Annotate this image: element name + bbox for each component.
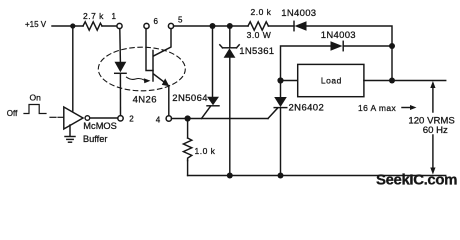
diode D3 1N4003 (points right) xyxy=(331,41,343,50)
pin 6 label xyxy=(154,17,159,26)
wire to load xyxy=(281,80,298,82)
wire pin5 to top rail xyxy=(174,25,248,27)
wire zener top xyxy=(229,26,231,47)
wire emitter to pin 4 xyxy=(168,86,170,116)
wire R3 to bottom rail xyxy=(187,161,189,176)
wire pin1 to LED anode xyxy=(119,29,122,62)
wire +15V down to buffer xyxy=(72,26,74,111)
svg-text:On: On xyxy=(30,92,42,102)
svg-text:60 Hz: 60 Hz xyxy=(423,125,448,136)
svg-text:2N5064: 2N5064 xyxy=(172,93,208,104)
waveform On label xyxy=(30,92,42,102)
svg-text:2: 2 xyxy=(129,115,134,124)
wire buffer to pin 2 xyxy=(90,117,118,119)
wire R3 top xyxy=(187,119,189,139)
light coupling arrow xyxy=(127,77,145,80)
node junction dot pin4 / R3 xyxy=(185,115,191,121)
wire pin4 node to Q2 gate xyxy=(172,118,269,120)
svg-text:5: 5 xyxy=(178,16,183,25)
value label 1.0 k xyxy=(195,146,216,156)
svg-text:4: 4 xyxy=(156,115,161,124)
wire R2 to diode D2 xyxy=(268,25,294,27)
zener diode D4 1N5361 xyxy=(223,47,237,49)
node junction dot load left xyxy=(277,77,283,83)
svg-text:3.0 W: 3.0 W xyxy=(247,30,272,40)
pin 1 terminal xyxy=(117,23,122,28)
SCR Q2 2N6402 anode wire xyxy=(280,81,282,98)
resistor R3 1.0k xyxy=(183,138,191,161)
label 4N26 xyxy=(133,94,157,105)
label Buffer xyxy=(83,134,108,144)
svg-text:16 A max: 16 A max xyxy=(358,103,397,113)
wire junction down xyxy=(391,46,393,81)
phototransistor collector xyxy=(154,29,172,56)
wire SCR1 anode xyxy=(212,26,214,97)
bottom rail wire xyxy=(188,175,446,177)
optocoupler U1 4N26 dashed ellipse xyxy=(98,47,185,91)
pin 5 terminal xyxy=(168,23,173,28)
svg-text:1N5361: 1N5361 xyxy=(239,46,274,57)
node junction dot diodes right xyxy=(389,43,395,49)
pin 2 terminal xyxy=(118,116,123,121)
svg-text:6: 6 xyxy=(154,17,159,26)
watermark SeekIC.com xyxy=(376,172,457,189)
pin 1 label xyxy=(112,12,117,21)
label 1N5361 xyxy=(239,46,274,57)
pin 4 terminal xyxy=(166,116,171,121)
diode D2 1N4003 (points left) xyxy=(293,21,295,30)
svg-text:1: 1 xyxy=(112,12,117,21)
svg-text:1N4003: 1N4003 xyxy=(321,30,356,41)
node junction dot zener bottom xyxy=(227,173,233,179)
LED D1 inside opto xyxy=(115,62,127,73)
value label 2.7 k xyxy=(83,11,104,21)
wire R1 to pin 1 xyxy=(102,25,117,27)
wire D2 to right corner xyxy=(307,26,392,46)
resistor R1 2.7k xyxy=(83,22,102,30)
label 2N5064 xyxy=(172,93,208,104)
dashed wire to buffer input xyxy=(50,116,56,118)
buffer output bubble xyxy=(85,116,90,121)
node junction dot SCR1 anode xyxy=(210,23,216,29)
wire D3 to junction xyxy=(343,45,392,47)
SCR Q2 2N6402 xyxy=(274,97,287,107)
label 1N4003 xyxy=(281,8,316,19)
wire load right to rail xyxy=(364,80,446,82)
label Load xyxy=(321,76,342,86)
label 60 Hz xyxy=(423,125,448,136)
wire pin6 to base xyxy=(146,29,153,71)
node junction dot +15V rail xyxy=(70,23,75,28)
ground xyxy=(69,125,71,136)
wire +15V to resistor R1 xyxy=(52,25,83,27)
svg-text:1N4003: 1N4003 xyxy=(281,8,316,19)
pin 5 label xyxy=(178,16,183,25)
label McMOS xyxy=(83,121,117,131)
resistor R2 2.0k 3.0W xyxy=(248,22,268,30)
pin 2 label xyxy=(129,115,134,124)
label 2N6402 xyxy=(289,103,325,114)
svg-text:SeekIC.com: SeekIC.com xyxy=(376,172,457,189)
svg-text:Off: Off xyxy=(7,109,18,118)
svg-text:+15 V: +15 V xyxy=(25,20,47,29)
label 16 A max with arrow xyxy=(358,103,397,113)
SCR Q3 2N5064 xyxy=(207,97,219,106)
wire Q2 cathode to bottom rail xyxy=(280,108,282,176)
svg-text:2N6402: 2N6402 xyxy=(289,103,325,114)
node +15V label xyxy=(25,20,47,29)
wire zener to bottom rail xyxy=(229,58,231,176)
waveform Off label xyxy=(7,109,18,118)
load box xyxy=(298,64,364,96)
wire second branch corner xyxy=(281,46,331,81)
wire LED cathode to pin 2 xyxy=(119,73,121,116)
buffer U2 McMOS triangle xyxy=(64,107,83,129)
SCR Q2 gate xyxy=(268,108,278,118)
phototransistor emitter xyxy=(154,74,167,84)
input pulse waveform xyxy=(24,105,46,114)
svg-text:1.0 k: 1.0 k xyxy=(195,146,216,156)
label 120 VRMS xyxy=(408,116,454,127)
svg-text:Load: Load xyxy=(321,76,342,86)
phototransistor Q1 base bar xyxy=(152,51,154,82)
node junction dot load right xyxy=(389,78,395,84)
pin 4 label xyxy=(156,115,161,124)
label 1N4003 xyxy=(321,30,356,41)
SCR Q3 cathode diagonal xyxy=(202,106,211,118)
node junction dot zener xyxy=(227,23,233,29)
node junction dot Q2 cathode bottom xyxy=(278,173,284,179)
svg-text:2.7 k: 2.7 k xyxy=(83,11,104,21)
svg-text:4N26: 4N26 xyxy=(133,94,157,105)
pin 6 terminal xyxy=(144,23,149,28)
AC source double arrow xyxy=(432,84,434,112)
value label 3.0 W xyxy=(247,30,272,40)
svg-text:McMOS: McMOS xyxy=(83,121,117,131)
svg-text:2.0 k: 2.0 k xyxy=(251,7,272,17)
svg-text:Buffer: Buffer xyxy=(83,134,108,144)
value label 2.0 k xyxy=(251,7,272,17)
